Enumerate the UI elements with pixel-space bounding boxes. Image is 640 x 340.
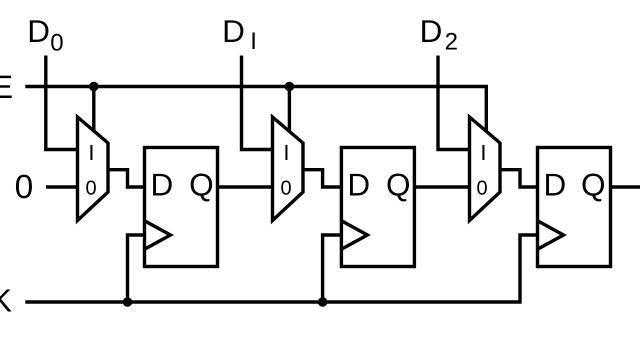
mux M2 (273, 117, 304, 221)
wire mux M1 output to FF1 D (107, 170, 146, 187)
svg-text:D: D (151, 167, 174, 203)
svg-text:K: K (0, 282, 12, 318)
flip-flop FF3 (538, 148, 611, 267)
svg-text:0: 0 (85, 177, 96, 199)
flip-flop FF2 (341, 148, 414, 267)
svg-text:0: 0 (50, 30, 63, 57)
svg-text:0: 0 (476, 177, 487, 199)
svg-text:I: I (88, 140, 94, 165)
svg-text:Q: Q (189, 167, 214, 203)
svg-text:I: I (480, 140, 486, 165)
mux M1 (78, 117, 109, 221)
svg-text:0: 0 (280, 177, 291, 199)
FF3 clock triangle (538, 221, 564, 250)
wire FF3 Q output (610, 185, 640, 188)
svg-text:I: I (283, 140, 289, 165)
wire D1 to mux2 input 1 (242, 56, 275, 150)
label D2 (420, 13, 458, 56)
svg-text:Q: Q (386, 167, 411, 203)
wire FF1 clock (128, 235, 147, 302)
wire mux M3 output to FF3 D (499, 170, 539, 187)
wire CLK line to FF3 clock (25, 235, 539, 302)
label D1 (222, 13, 257, 55)
svg-text:2: 2 (445, 29, 458, 56)
svg-text:D: D (347, 167, 370, 203)
wire FF2 Q to mux M3 input 0 (413, 185, 471, 188)
wire FF2 clock (323, 235, 343, 302)
wire D0 to mux1 input 1 (46, 56, 79, 150)
svg-text:Q: Q (581, 167, 606, 203)
junction dot E/mux1 select (89, 82, 99, 92)
FF2 clock triangle (341, 221, 367, 250)
svg-text:E: E (0, 69, 13, 105)
junction dot CLK/FF1 (123, 297, 133, 307)
svg-text:D: D (420, 13, 443, 49)
FF1 clock triangle (145, 221, 171, 250)
wire D2 to mux3 input 1 (438, 56, 471, 150)
wire E line (25, 87, 486, 134)
svg-text:D: D (27, 13, 50, 49)
svg-text:I: I (250, 28, 257, 55)
svg-text:0: 0 (15, 169, 34, 206)
svg-text:D: D (222, 13, 245, 49)
flip-flop FF1 (145, 148, 218, 267)
wire constant 0 to mux1 input 0 (46, 185, 79, 188)
wire select stub mux2 (288, 87, 291, 133)
label D0 (27, 13, 63, 57)
junction dot CLK/FF2 (318, 297, 328, 307)
wire select stub mux1 (92, 87, 95, 133)
wire FF1 Q to mux M2 input 0 (217, 185, 275, 188)
mux M3 (470, 117, 501, 221)
wire mux M2 output to FF2 D (302, 170, 343, 187)
svg-text:D: D (544, 167, 567, 203)
junction dot E/mux2 select (285, 82, 295, 92)
